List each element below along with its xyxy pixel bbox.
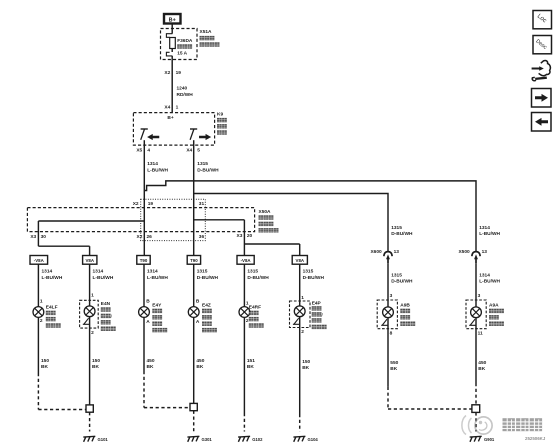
wire label 1315 D-BU/WH below X600 [391,273,413,285]
wire splice to ground G101 [89,412,91,431]
svg-text:L-BU/WH: L-BU/WH [147,167,168,173]
svg-text:A9B: A9B [400,303,410,309]
ground wire 550 BK passenger mirror [388,318,399,387]
wire label 1315 D-BU/WH column 4 [197,269,219,281]
svg-text:B: B [196,299,200,305]
wire splice to ground G901 [475,412,477,431]
svg-text:X51A: X51A [200,29,213,35]
wire label 1314 L-BU/WH column 2 [93,269,114,281]
wire 1240 RD/WH [172,56,193,113]
svg-text:X5: X5 [136,147,142,153]
in-line connector V8A C2 side-left [83,256,97,265]
lamp E4N left side turn signal [83,292,95,336]
dashed ground run mirror to splice [388,387,472,409]
svg-text:13: 13 [394,249,400,255]
body control module K9 enclosure [133,113,214,146]
lamp E4Z labels [202,303,217,333]
svg-text:T90: T90 [140,258,148,263]
underhood fuse block X50A enclosure [27,208,254,232]
lamp E4Z right repeater [188,299,200,325]
svg-text:450: 450 [147,358,155,364]
svg-text:2: 2 [246,318,249,324]
terminal clip bottom of fuse F36DA [166,52,172,56]
svg-text:L-BU/WH: L-BU/WH [93,275,114,281]
dashed run to ground G104 [299,414,301,432]
left turn output switch inside K9 [141,129,148,140]
svg-text:L-BU/WH: L-BU/WH [42,275,63,281]
lamp E4LF labels [46,305,61,328]
svg-text:E4Y: E4Y [152,303,162,309]
fuse block X51A label [200,29,220,47]
pin X5 4 of K9 [136,147,150,153]
driver mirror A9A turn lamp [469,293,483,337]
svg-text:E4RF: E4RF [249,305,261,311]
ground wire 151 BK column 5 [244,317,255,413]
icon button Desc [533,36,552,54]
inline connector X500 pin 13 [458,249,487,263]
wire connector to lamp column 2 [89,264,91,306]
ground G102 [238,436,263,442]
svg-text:1314: 1314 [93,269,104,275]
pin X3 20 out of X50A [237,233,253,239]
svg-text:13: 13 [482,249,488,255]
svg-text:B+: B+ [167,115,173,121]
pin X2 26 out of X50A [137,234,153,240]
svg-text:T90: T90 [190,258,198,263]
svg-text:G104: G104 [308,437,319,442]
svg-text:X500: X500 [458,249,470,255]
svg-text:L-BU/WH: L-BU/WH [147,275,168,281]
svg-text:20: 20 [247,233,253,239]
icon button back arrow [532,113,552,132]
svg-text:1: 1 [301,295,304,301]
underhood fuse block X50A label [259,209,279,233]
svg-text:D-BU/WH: D-BU/WH [197,167,219,173]
ground G104 [293,436,318,442]
svg-text:X3: X3 [237,233,243,239]
passenger mirror A9B turn lamp [381,293,393,337]
icon tools arrow [532,60,551,80]
svg-text:30: 30 [41,234,47,240]
svg-text:26: 26 [147,234,153,240]
wire inside fuse box [171,49,173,53]
lamp E4LF left front turn signal [33,299,44,325]
svg-text:1315: 1315 [391,273,402,279]
wire label 1314 L-BU/WH column 1 [42,269,63,281]
svg-text:1314: 1314 [147,269,158,275]
ground wire 450 BK column 4 [194,317,205,403]
svg-text:3: 3 [478,293,481,299]
svg-text:36: 36 [199,234,205,240]
wire B+ to fuse block [171,24,173,34]
svg-text:2: 2 [301,329,304,335]
svg-text:4: 4 [147,147,150,153]
svg-text:5: 5 [197,147,200,153]
fuse F36DA body [170,38,176,49]
svg-text:1315: 1315 [197,161,208,167]
fuse block X51A enclosure [161,29,198,60]
svg-text:V8A: V8A [85,258,94,263]
right turn direction arrow [199,135,210,140]
right turn output switch inside K9 [190,129,197,140]
pin 31 into X50A [199,201,205,207]
left turn direction arrow [148,135,159,140]
pin X2 19 into X50A [133,201,154,207]
lamp E4RF right front turn signal [239,300,250,324]
svg-text:2: 2 [91,330,94,336]
document number 252506KJ [525,436,546,441]
svg-text:X2: X2 [164,70,170,76]
svg-text:252506KJ: 252506KJ [525,436,546,441]
wire connector to lamp column 5 [243,264,245,306]
driver mirror A9A labels [489,303,504,326]
svg-text:X50A: X50A [259,209,272,215]
svg-text:X4: X4 [164,105,170,111]
wire X600 to passenger mirror [387,263,389,307]
node B+ inside K9 [167,115,173,121]
pin X4 1 of body control module [164,105,178,111]
svg-text:A: A [146,319,150,325]
svg-text:11: 11 [478,331,483,337]
wire splice to ground G301 [193,411,195,432]
svg-text:BK: BK [41,364,48,370]
wire connector to lamp column 4 [193,264,195,306]
dashed ground run column 3 to splice [144,371,190,408]
svg-text:X600: X600 [370,249,382,255]
svg-text:BK: BK [302,365,309,371]
svg-text:BK: BK [92,364,99,370]
pin 36 out of X50A [199,234,205,240]
wire label 1315 D-BU/WH mirror X600 [391,225,413,237]
passenger mirror A9B labels [400,303,415,326]
svg-text:1315: 1315 [303,269,314,275]
icon button Loc [533,11,552,29]
svg-text:B+: B+ [169,17,176,23]
svg-text:D-BU/WH: D-BU/WH [197,275,219,281]
svg-text:150: 150 [41,358,49,364]
svg-text:D-BU/WH: D-BU/WH [303,275,325,281]
wire 1314 L-BU/WH from K9 left output [144,140,168,255]
svg-text:1315: 1315 [197,269,208,275]
svg-text:G901: G901 [484,437,495,442]
svg-text:X2: X2 [133,201,139,207]
svg-text:19: 19 [176,70,182,76]
svg-text:151: 151 [247,358,255,364]
svg-text:3: 3 [390,293,393,299]
svg-text:15 A: 15 A [177,51,187,57]
svg-text:BK: BK [196,364,203,370]
svg-text:2: 2 [40,318,43,324]
wire label 1314 L-BU/WH mirror X500 [479,225,500,237]
svg-text:L-BU/WH: L-BU/WH [479,279,500,285]
svg-text:K9: K9 [217,112,223,118]
svg-text:G102: G102 [252,437,263,442]
terminal clip top of fuse F36DA [166,34,172,38]
wire 1314 branch to mirror X500 staircase [144,181,476,251]
svg-text:1314: 1314 [147,161,158,167]
lamp E4N left side turn signal enclosure [80,300,99,328]
svg-text:1: 1 [40,299,43,305]
lamp E4Y left repeater [139,299,151,325]
svg-text:1: 1 [91,292,94,298]
svg-text:A9A: A9A [489,303,499,309]
lamp E4Y labels [152,303,167,333]
svg-text:D-BU/WH: D-BU/WH [391,279,413,285]
in-line connector T90 C4 repeater-right [187,256,200,265]
in-line connector V8A C6 side-right [292,256,307,265]
svg-text:X2: X2 [137,234,143,240]
svg-text:150: 150 [92,358,100,364]
wire label 1315 D-BU/WH column 6 [303,269,325,281]
svg-text:1314: 1314 [479,273,490,279]
svg-text:1: 1 [176,105,179,111]
svg-text:D-BU/WH: D-BU/WH [247,275,269,281]
ground wire 150 BK column 2 [90,317,101,405]
svg-text:F36DA: F36DA [177,38,193,44]
lamp E4RF labels [249,305,264,328]
svg-text:E4N: E4N [101,301,111,307]
dashed run to ground G102 [243,413,245,432]
svg-text:RD/WH: RD/WH [177,92,194,98]
svg-text:G301: G301 [202,437,213,442]
svg-text:A: A [196,319,200,325]
ground G301 [187,436,212,442]
svg-text:E4P: E4P [312,301,322,307]
pass-through connector dotted box in X50A [141,199,206,240]
svg-text:8: 8 [390,331,393,337]
dashed ground run column 1 to splice [38,373,86,410]
ground wire 450 BK driver mirror [476,318,487,405]
splice pack under driver mirror [472,405,480,413]
watermark logo [462,416,492,435]
svg-text:G101: G101 [98,437,109,442]
wire label 1314 L-BU/WH column 3 [147,269,168,281]
passenger mirror A9B enclosure [377,300,397,329]
svg-text:550: 550 [390,360,398,366]
wire 1315 branch to mirror X600 [194,194,388,252]
lamp E4P labels [312,301,327,330]
lamp E4P right side turn signal enclosure [290,301,311,328]
wire X3 20 branch to front and side lamps right [244,244,299,256]
svg-text:31: 31 [199,201,205,207]
icon button next arrow [532,89,552,108]
svg-text:-V8A: -V8A [241,258,252,263]
svg-text:1240: 1240 [177,86,188,92]
svg-text:1315: 1315 [391,225,402,231]
fuse F36DA label 15 A [177,38,193,57]
svg-text:1314: 1314 [479,225,490,231]
svg-text:1315: 1315 [247,269,258,275]
svg-text:E4LF: E4LF [46,305,58,311]
pin X2 19 of fuse block [164,70,181,76]
bus 1315 inside X50A [194,220,245,256]
ground wire 150 BK column 6 [300,317,311,414]
ground G901 [470,436,495,442]
battery B+ terminal [164,14,181,24]
ground wire 450 BK column 3 [144,317,155,371]
svg-text:L-BU/WH: L-BU/WH [479,231,500,237]
svg-text:BK: BK [478,366,485,372]
svg-text:BK: BK [390,366,397,372]
svg-text:V8A: V8A [296,258,305,263]
wire X500 to driver mirror [475,263,477,307]
svg-text:-V8A: -V8A [34,258,45,263]
svg-text:150: 150 [302,359,310,365]
ground G101 [83,436,108,442]
in-line connector -V8A C5 front-right [237,256,254,265]
wire 1315 D-BU/WH from K9 right output [194,140,219,255]
lamp E4N labels [101,301,116,331]
driver mirror A9A enclosure [466,300,486,329]
splice pack under column 2 [86,405,93,412]
svg-text:D-BU/WH: D-BU/WH [391,231,413,237]
wire X3 30 branch to front and side lamps [38,246,89,255]
svg-text:X4: X4 [186,147,192,153]
pin X3 30 out of X50A [30,234,46,240]
svg-text:BK: BK [247,364,254,370]
svg-text:E4Z: E4Z [202,303,211,309]
bus 1314 inside X50A [38,221,144,246]
in-line connector -V8A C1 front-left [30,256,48,265]
svg-text:B: B [146,299,150,305]
watermark text ji shi bang [503,418,543,431]
in-line connector T90 C3 repeater-left [137,256,150,265]
inline connector X600 pin 13 [370,249,399,263]
svg-text:19: 19 [148,201,154,207]
ground wire 150 BK column 1 [38,317,49,373]
body control module K9 label [217,112,227,135]
wire connector to lamp column 1 [37,264,39,306]
splice pack under column 4 [190,403,197,410]
svg-text:BK: BK [147,364,154,370]
pin X4 5 of K9 [186,147,200,153]
svg-text:450: 450 [196,358,204,364]
wire label 1315 D-BU/WH column 5 [247,269,269,281]
svg-text:450: 450 [478,360,486,366]
wire connector to lamp column 6 [299,264,301,306]
svg-text:X3: X3 [30,234,36,240]
svg-text:1314: 1314 [42,269,53,275]
lamp E4P right side turn signal [293,295,305,335]
wire label 1314 L-BU/WH below X500 [479,273,500,285]
wire connector to lamp column 3 [143,264,145,306]
